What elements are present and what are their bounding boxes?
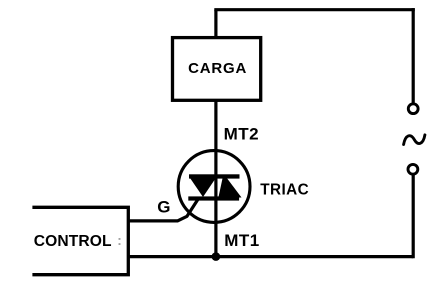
svg-text:TRIAC: TRIAC <box>260 182 309 199</box>
triac right triangle (up) <box>218 178 241 198</box>
svg-text:CARGA: CARGA <box>188 60 247 77</box>
AC source sine symbol <box>404 135 425 145</box>
triac body circle <box>178 151 250 223</box>
junction dot MT1/bottom rail <box>212 252 221 261</box>
triac top bar <box>189 174 240 178</box>
load box CARGA <box>173 38 261 101</box>
svg-text:MT2: MT2 <box>224 125 260 144</box>
wire: bottom rail <box>128 255 413 258</box>
wire: right drop to AC top terminal <box>412 8 415 103</box>
triac bottom bar <box>188 196 239 200</box>
triac left triangle (down) <box>190 178 216 197</box>
wire: MT2/MT1 vertical through triac <box>214 100 217 257</box>
control box CONTROL (open left side) <box>32 207 128 274</box>
wire: top rail <box>214 8 414 11</box>
svg-text:G: G <box>157 198 170 217</box>
svg-text:CONTROL: CONTROL <box>34 233 112 250</box>
wire: CARGA top to top rail <box>214 10 217 37</box>
svg-text:MT1: MT1 <box>224 231 260 250</box>
wire: gate <box>128 199 198 221</box>
AC source bottom terminal <box>408 164 418 174</box>
AC source top terminal <box>408 104 418 114</box>
svg-text::: : <box>117 233 122 248</box>
wire: AC bottom terminal to bottom rail <box>412 175 415 259</box>
